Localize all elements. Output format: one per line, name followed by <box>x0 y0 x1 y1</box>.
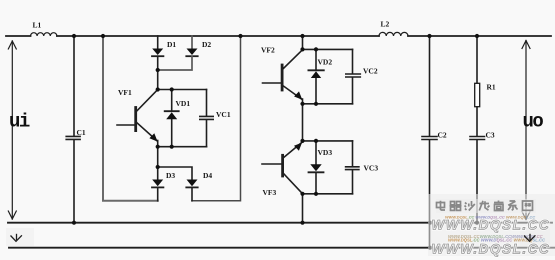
svg-text:D4: D4 <box>203 171 212 180</box>
svg-text:WWW.DQSL.CC: WWW.DQSL.CC <box>432 241 551 256</box>
svg-text:C2: C2 <box>438 131 447 140</box>
svg-text:WWW.DQSL.CC: WWW.DQSL.CC <box>432 218 551 233</box>
svg-text:VF3: VF3 <box>263 188 277 197</box>
svg-text:VC2: VC2 <box>363 67 378 76</box>
svg-text:VD2: VD2 <box>318 58 333 67</box>
svg-text:L2: L2 <box>381 20 390 29</box>
svg-text:VF2: VF2 <box>261 46 275 55</box>
svg-text:D2: D2 <box>202 40 211 49</box>
svg-text:VC3: VC3 <box>364 164 379 173</box>
svg-text:uo: uo <box>523 111 544 133</box>
svg-text:VD1: VD1 <box>176 99 191 108</box>
svg-text:C3: C3 <box>486 131 495 140</box>
svg-text:R1: R1 <box>487 83 496 92</box>
svg-text:VD3: VD3 <box>318 148 333 157</box>
svg-text:L1: L1 <box>33 21 42 30</box>
svg-text:ui: ui <box>9 111 30 133</box>
svg-text:D3: D3 <box>166 171 175 180</box>
svg-text:C1: C1 <box>77 128 86 137</box>
svg-text:D1: D1 <box>167 40 176 49</box>
svg-text:VC1: VC1 <box>216 110 231 119</box>
svg-text:VF1: VF1 <box>118 88 132 97</box>
